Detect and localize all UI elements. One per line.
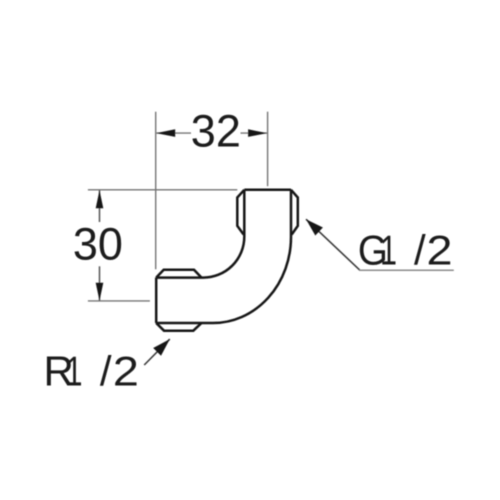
extension line top of dim 30 (88, 189, 237, 191)
dim 32 arrow right (248, 129, 267, 137)
dimension line 30 bottom segment (99, 266, 101, 300)
elbow fitting: top nut top edge (244, 189, 291, 192)
svg-text:/: / (414, 226, 426, 273)
elbow body: right face, outer curve, bottom face (156, 190, 291, 323)
elbow fitting: top nut left chamfer (237, 190, 244, 235)
svg-text:/: / (100, 347, 112, 394)
leader arrowhead G1/2 (306, 219, 323, 235)
dimension line 32 left segment (156, 132, 191, 134)
svg-text:32: 32 (191, 106, 241, 157)
leader line R1/2 (144, 339, 170, 365)
leader line G1/2 diagonal (306, 219, 360, 270)
extension line bottom of dim 30 (88, 300, 150, 302)
leader underline G1/2 (359, 269, 454, 271)
dim 30 arrow top (96, 190, 104, 208)
elbow fitting: left nut bottom chamfer (156, 323, 201, 331)
svg-text:1: 1 (66, 347, 83, 394)
svg-text:30: 30 (73, 219, 123, 270)
svg-text:2: 2 (427, 226, 453, 273)
elbow fitting: left nut top chamfer (156, 270, 201, 278)
elbow fitting: left nut end face (155, 278, 158, 323)
dimension line 32 right segment (241, 132, 268, 134)
dimension line 30 top segment (99, 190, 101, 222)
elbow fitting: top nut right chamfer (291, 190, 298, 235)
svg-text:2: 2 (113, 347, 139, 394)
dim 30 arrow bottom (96, 283, 104, 301)
dim 32 arrow left (156, 129, 175, 137)
svg-text:1: 1 (380, 226, 397, 273)
elbow body: left face, inner curve, top face (156, 190, 244, 278)
leader arrowhead R1/2 (153, 339, 170, 356)
extension line right of dim 32 (267, 112, 269, 187)
extension line left of dim 32 (155, 112, 157, 270)
